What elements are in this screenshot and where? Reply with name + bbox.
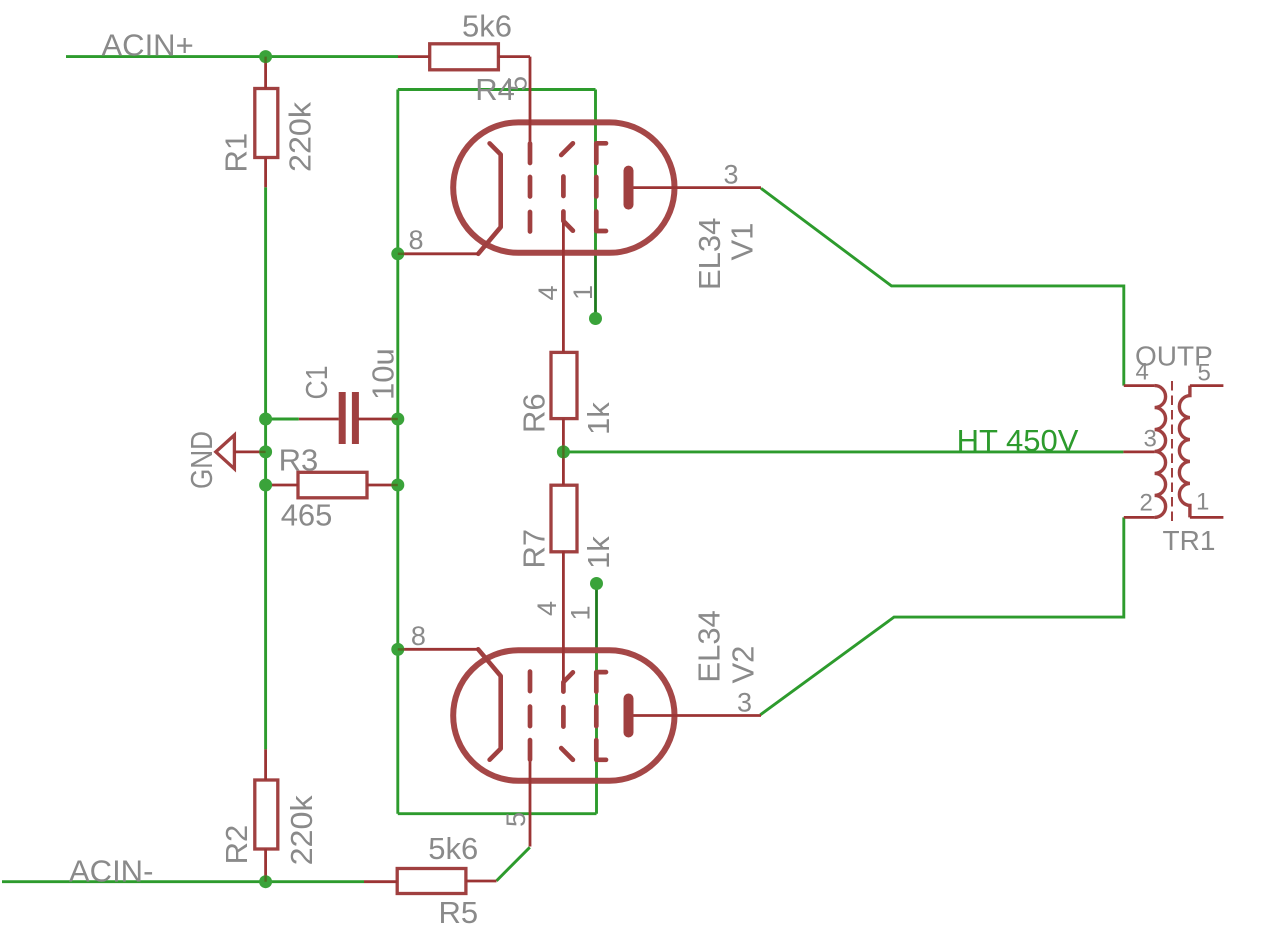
svg-text:5k6: 5k6 bbox=[428, 831, 478, 866]
wire left vertical net bbox=[264, 187, 267, 749]
node V1 pin8 bbox=[391, 247, 404, 260]
svg-text:R3: R3 bbox=[279, 443, 319, 478]
svg-text:HT 450V: HT 450V bbox=[957, 423, 1079, 458]
svg-text:1: 1 bbox=[568, 285, 598, 300]
wire HT 450V bbox=[563, 450, 1123, 453]
resistor R1 bbox=[255, 89, 278, 158]
node R3 left bbox=[259, 479, 272, 492]
resistor R7 bbox=[551, 485, 577, 552]
svg-text:3: 3 bbox=[737, 688, 752, 718]
wire R5 to V2 g1 diagonal bbox=[497, 847, 530, 881]
svg-text:8: 8 bbox=[411, 621, 426, 651]
resistor R4 bbox=[430, 44, 499, 70]
svg-text:ACIN-: ACIN- bbox=[69, 854, 153, 889]
transformer core bbox=[1171, 381, 1173, 522]
svg-text:4: 4 bbox=[533, 285, 563, 300]
svg-text:GND: GND bbox=[184, 431, 219, 489]
svg-text:1: 1 bbox=[566, 605, 596, 620]
svg-text:R2: R2 bbox=[219, 825, 254, 865]
pin V2 g3 (dark) bbox=[595, 584, 598, 654]
tube V2 bbox=[398, 551, 761, 847]
svg-text:5: 5 bbox=[503, 76, 533, 91]
svg-text:TR1: TR1 bbox=[1163, 525, 1216, 556]
svg-text:8: 8 bbox=[409, 225, 424, 255]
svg-text:3: 3 bbox=[1144, 426, 1157, 453]
node R3 right bbox=[391, 479, 404, 492]
svg-text:4: 4 bbox=[1136, 359, 1149, 386]
svg-text:10u: 10u bbox=[366, 348, 401, 400]
capacitor C1 bbox=[339, 392, 346, 444]
transformer TR1 bbox=[1123, 386, 1154, 518]
svg-text:C1: C1 bbox=[299, 366, 334, 400]
svg-text:5: 5 bbox=[501, 812, 531, 827]
resistor R6 bbox=[551, 352, 577, 418]
svg-text:1k: 1k bbox=[581, 536, 616, 569]
junction dots bbox=[259, 50, 603, 888]
svg-text:220k: 220k bbox=[284, 795, 319, 866]
node GND junction bbox=[259, 445, 272, 458]
node V2 pin1 bbox=[590, 577, 603, 590]
svg-text:5k6: 5k6 bbox=[462, 8, 512, 43]
svg-text:1: 1 bbox=[1196, 489, 1209, 516]
svg-text:R6: R6 bbox=[517, 393, 552, 433]
svg-text:EL34: EL34 bbox=[692, 218, 727, 290]
svg-text:5: 5 bbox=[1198, 360, 1211, 387]
svg-text:3: 3 bbox=[724, 159, 739, 189]
resistor R2 bbox=[255, 780, 278, 849]
node ACIN- junction bbox=[259, 875, 272, 888]
svg-text:V1: V1 bbox=[725, 223, 760, 261]
node ACIN+ junction bbox=[259, 50, 272, 63]
node HT junction bbox=[557, 445, 570, 458]
svg-text:1k: 1k bbox=[581, 402, 616, 435]
wire V1 plate to TR1 pin4 bbox=[761, 188, 1124, 385]
wire V2 plate to TR1 pin2 bbox=[760, 517, 1124, 714]
wire-over-dot blends bbox=[259, 57, 563, 882]
svg-text:465: 465 bbox=[281, 498, 333, 533]
resistor R5 bbox=[397, 869, 466, 894]
node C1 left bbox=[259, 413, 272, 426]
pin V1 g3 (dark) bbox=[594, 250, 597, 319]
svg-text:4: 4 bbox=[532, 601, 562, 616]
svg-text:2: 2 bbox=[1140, 490, 1153, 517]
tube V1 bbox=[398, 57, 761, 353]
svg-text:R1: R1 bbox=[218, 133, 253, 173]
svg-text:220k: 220k bbox=[282, 101, 317, 172]
svg-text:R5: R5 bbox=[439, 895, 479, 930]
node C1 right bbox=[391, 413, 404, 426]
svg-text:R7: R7 bbox=[517, 529, 552, 569]
node V1 pin1 bbox=[589, 312, 602, 325]
wire ACIN- bbox=[2, 880, 364, 883]
svg-text:EL34: EL34 bbox=[692, 610, 727, 682]
wire cathode net rectangle bbox=[398, 90, 597, 814]
wire ACIN+ bbox=[66, 55, 398, 58]
resistor R3 bbox=[298, 472, 367, 498]
svg-text:V2: V2 bbox=[726, 646, 761, 684]
node V2 pin8 bbox=[391, 643, 404, 656]
ground bbox=[216, 435, 235, 469]
svg-text:ACIN+: ACIN+ bbox=[102, 27, 194, 62]
